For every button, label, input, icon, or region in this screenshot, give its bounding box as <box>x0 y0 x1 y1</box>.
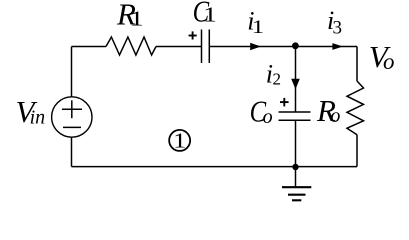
svg-text:2: 2 <box>273 70 282 89</box>
svg-text:o: o <box>383 49 395 74</box>
svg-text:1: 1 <box>130 8 144 31</box>
svg-text:o: o <box>263 106 273 128</box>
svg-text:1: 1 <box>173 130 186 153</box>
svg-text:in: in <box>30 107 46 129</box>
svg-text:1: 1 <box>252 16 264 38</box>
svg-text:3: 3 <box>333 17 343 38</box>
svg-text:1: 1 <box>203 4 217 27</box>
svg-text:o: o <box>330 105 340 127</box>
